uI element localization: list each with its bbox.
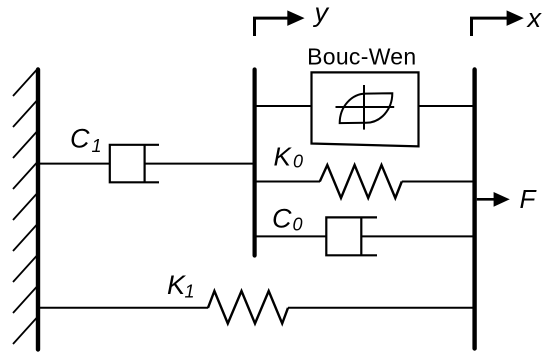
- wire: bouc-wen right: [419, 105, 474, 107]
- svg-text:K: K: [274, 142, 293, 172]
- hysteresis symbol: loop: [340, 93, 393, 123]
- wire: C0 left: [255, 235, 326, 237]
- svg-text:1: 1: [185, 282, 195, 302]
- wire: spring K1 to right plate: [288, 307, 473, 309]
- svg-text:0: 0: [293, 215, 303, 235]
- svg-text:C: C: [272, 204, 292, 234]
- middle plate: [253, 70, 257, 256]
- svg-text:0: 0: [293, 152, 303, 172]
- y-axis bracket: [255, 18, 289, 36]
- wire: bouc-wen left: [255, 105, 312, 107]
- svg-text:F: F: [520, 184, 538, 214]
- force F arrow shaft: [477, 198, 495, 201]
- svg-text:y: y: [313, 0, 330, 28]
- spring K0: [320, 165, 402, 198]
- wire: K0 right: [402, 181, 473, 183]
- wire: wall to damper C1: [38, 163, 110, 165]
- hysteresis symbol: horizontal axis: [336, 106, 395, 108]
- svg-text:x: x: [526, 3, 543, 33]
- spring K1: [208, 291, 288, 324]
- svg-text:Bouc-Wen: Bouc-Wen: [307, 44, 416, 70]
- x-axis arrowhead: [507, 10, 524, 26]
- Bouc-Wen box: [312, 72, 419, 146]
- wire: K0 left: [255, 181, 320, 183]
- force F arrowhead: [494, 192, 510, 207]
- damper C1 piston: [144, 145, 146, 183]
- damper C0 cylinder: [326, 217, 377, 255]
- x-axis bracket: [472, 18, 508, 36]
- wire: wall to spring K1: [38, 307, 208, 309]
- svg-text:K: K: [167, 270, 186, 300]
- wall: [36, 70, 40, 350]
- svg-text:C: C: [70, 123, 90, 153]
- wall hatching: [13, 70, 37, 344]
- damper C0 piston: [360, 217, 362, 255]
- svg-text:1: 1: [92, 136, 102, 156]
- hysteresis symbol: vertical axis: [363, 85, 365, 130]
- y-axis arrowhead: [287, 10, 304, 26]
- wire: damper C0 to right plate: [361, 235, 473, 237]
- wire: damper C1 to middle plate: [145, 163, 253, 165]
- damper C1 cylinder: [110, 145, 159, 183]
- right plate: [472, 70, 476, 349]
